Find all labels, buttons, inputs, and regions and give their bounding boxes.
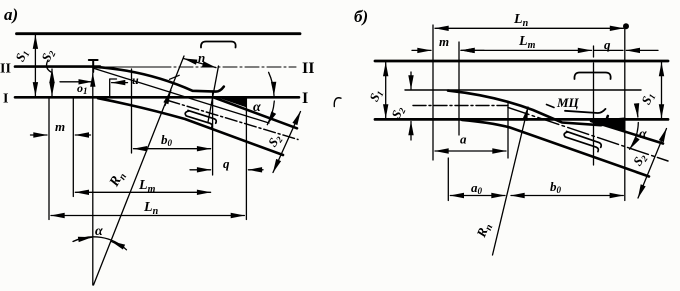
LT right extension vertical (593, 63, 595, 165)
LT dimension (inside arrows) (75, 191, 210, 193)
label S2 diverging rotated (265, 131, 285, 150)
S1 dimension right (661, 63, 663, 119)
Lp left extension vertical (432, 25, 434, 160)
S2 gauge dimension on diverging track (273, 112, 301, 173)
label b0 (161, 132, 173, 148)
label b) (354, 7, 368, 26)
m dimension (outside arrows) (31, 134, 48, 136)
angle alpha arc at vertex (73, 237, 127, 250)
vertical extension line at switch begin (72, 98, 74, 197)
label S1 rotated (12, 47, 31, 64)
stray paren mark right of figure a (334, 98, 341, 107)
LT dimension (inside arrows) (461, 49, 592, 51)
extension line at curve end (b0 left) (131, 69, 133, 153)
svg-text:m: m (439, 34, 449, 49)
svg-text:S1: S1 (366, 87, 385, 104)
q right outside arrow (626, 49, 658, 51)
lower diverging rail curve (462, 120, 649, 177)
label q (223, 156, 230, 171)
label a (460, 132, 467, 147)
label I right (302, 90, 308, 107)
label o1 (77, 81, 88, 96)
diverging track axis dash-dot (168, 101, 298, 140)
label Lp (513, 12, 529, 29)
svg-text:Lп: Lп (513, 12, 529, 29)
axis dash-dot horizontal (413, 105, 508, 107)
svg-text:Rп: Rп (473, 220, 496, 241)
a dimension (inside arrows) (435, 150, 506, 152)
label S1 right rotated (638, 90, 657, 107)
lower diverging rail curve (98, 98, 283, 155)
label alpha bottom (95, 224, 103, 239)
alpha arc arrowhead at R line (112, 242, 121, 246)
diverging rail after frog (214, 98, 297, 129)
inner thin rail (405, 89, 641, 91)
Lp right extension vertical (624, 27, 626, 201)
b0 dimension (inside arrows) (134, 148, 211, 150)
tangent point tick on Rp (170, 75, 180, 79)
svg-text:б): б) (354, 7, 368, 26)
axis II dash-dot to right (157, 66, 296, 68)
svg-text:Lт: Lт (518, 34, 536, 51)
alpha arc arrowhead at vertical line (79, 237, 92, 239)
rail II thin continuation (100, 66, 157, 68)
label b0 (550, 179, 562, 195)
CP extension vertical (507, 104, 509, 159)
label LT (518, 34, 536, 51)
label S2 diverging rotated (630, 150, 650, 169)
svg-text:II: II (302, 60, 314, 77)
svg-text:S1: S1 (638, 90, 657, 107)
wing rail bar above frog (565, 109, 606, 113)
check-rail bracket on top rail (574, 73, 610, 80)
Rp arrowhead pointing at curve end (165, 91, 171, 106)
label m (439, 34, 449, 49)
svg-text:Lп: Lп (143, 200, 159, 217)
m right extension vertical (458, 42, 460, 135)
label S2 left rotated (388, 103, 408, 121)
svg-text:α: α (95, 224, 103, 239)
perpendicular limit line P2 at frog center (208, 66, 219, 122)
alpha arc at frog (below rail I) (267, 101, 274, 125)
label Rp rotated (473, 220, 496, 241)
Lp dimension (inside arrows) (435, 27, 624, 29)
axis dash-dot diverging (508, 108, 668, 162)
svg-text:b0: b0 (550, 179, 562, 195)
svg-text:о1: о1 (77, 81, 88, 96)
label a) (4, 5, 18, 24)
svg-text:I: I (302, 90, 308, 107)
svg-text:m: m (55, 119, 65, 134)
alpha arc above bottom rail (635, 104, 638, 117)
switch point tick with serif (110, 79, 117, 97)
end dot of Lp (623, 23, 629, 29)
svg-text:S2: S2 (630, 150, 650, 169)
bottom rail (375, 118, 668, 121)
svg-text:а0: а0 (471, 180, 483, 196)
svg-text:а): а) (4, 5, 18, 24)
extension line at frog throat (b0 right / q left) (212, 91, 214, 175)
n dimension along diverging direction (184, 59, 217, 68)
frog point black triangle (214, 96, 246, 107)
label a0 (471, 180, 483, 196)
Rp radius line with arrow to curve (493, 107, 529, 255)
svg-text:q: q (604, 37, 611, 52)
rail II left thick segment (15, 65, 100, 68)
o1 dimension arrow (left, pointing right) (60, 81, 92, 83)
alpha arc below bottom rail (630, 123, 639, 150)
svg-text:α: α (639, 127, 647, 142)
a0 dimension (inside arrows) (450, 195, 505, 197)
S2 leader curve (47, 60, 51, 72)
alpha arc at frog (above rail I) (269, 72, 274, 95)
S2 gauge dimension left (51, 69, 53, 96)
svg-text:u: u (132, 73, 139, 87)
m dimension (outside arrows) (412, 49, 431, 51)
svg-text:I: I (3, 92, 8, 107)
u dimension arrow (pointing left at tick) (112, 82, 128, 84)
label S1 left rotated (366, 87, 385, 104)
vertical extension line at turnout front joint (48, 98, 50, 220)
label II left (0, 62, 11, 77)
svg-text:S2: S2 (265, 131, 285, 150)
check-rail bracket on top rail (201, 42, 236, 48)
svg-text:МЦ: МЦ (556, 95, 580, 110)
label n (198, 50, 205, 65)
upper diverging rail curve with wing-rail end (93, 67, 224, 92)
check-rail bracket pair in diverging track (567, 131, 602, 147)
Lp dimension (inside arrows) (51, 215, 244, 217)
upper diverging rail curve with wing end (448, 91, 608, 126)
joint T mark on rail II (89, 60, 98, 72)
svg-text:b0: b0 (161, 132, 173, 148)
label alpha (639, 127, 647, 142)
check-rail bracket pair in diverging track (lower with left curl) (185, 111, 212, 128)
label МЦ (556, 95, 580, 110)
rail I (15, 96, 299, 99)
radius Rp line from vertex through curve (94, 56, 185, 285)
S1 gauge dimension left (34, 35, 36, 96)
LT right extension stub (593, 46, 595, 57)
top rail (375, 60, 668, 63)
frog black triangle (590, 117, 626, 130)
label alpha right (253, 100, 261, 115)
svg-text:S1: S1 (12, 47, 31, 64)
label I left (3, 92, 8, 107)
S1 dimension left (385, 63, 387, 119)
b0 dimension (inside arrows) (511, 195, 623, 197)
МЦ tick (547, 105, 555, 108)
svg-text:q: q (223, 156, 230, 171)
svg-text:Lт: Lт (138, 178, 156, 195)
extension line at frog heel (q right / Lp right) (245, 98, 247, 220)
label q (604, 37, 611, 52)
svg-text:а: а (460, 132, 467, 147)
label m (55, 119, 65, 134)
svg-text:II: II (0, 62, 11, 77)
S2 dimension diverging (638, 129, 667, 199)
diverging rail after frog (591, 121, 663, 144)
q dimension line (594, 49, 624, 51)
label LT (138, 178, 156, 195)
check-rail bracket pair in diverging track (upper) (188, 110, 216, 123)
a0 left extension vertical (447, 158, 449, 201)
top rail of straight track (17, 32, 301, 35)
label II right (302, 60, 314, 77)
vertical line through T down to angle vertex with up arrow (92, 73, 94, 285)
svg-text:α: α (253, 100, 261, 115)
label S2 rotated (38, 46, 58, 64)
q dimension (outside arrows) (190, 169, 211, 171)
label u (132, 73, 139, 87)
svg-text:Rп: Rп (107, 169, 130, 192)
thin tangent line from switch point to frog (94, 68, 270, 123)
label Rp rotated (107, 169, 130, 192)
svg-text:S2: S2 (38, 46, 58, 64)
S2 dimension left (outside arrows) (410, 72, 412, 89)
label Lp (143, 200, 159, 217)
